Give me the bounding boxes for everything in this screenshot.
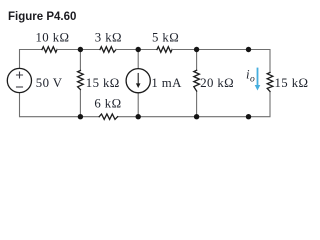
wire branch current source: [137, 50, 139, 117]
current source I1 circle: [126, 69, 150, 93]
resistor R 20k vertical zigzag: [194, 70, 200, 91]
svg-text:50 V: 50 V: [36, 76, 63, 90]
node dot top 20k: [194, 47, 199, 52]
wire top: left corner to 10k: [20, 50, 43, 69]
svg-text:1 mA: 1 mA: [151, 76, 182, 90]
voltage source V1 circle: [7, 68, 31, 92]
wire top: 3k to 5k: [116, 49, 157, 51]
svg-text:6 kΩ: 6 kΩ: [94, 96, 121, 110]
current source arrow: [137, 74, 139, 86]
node dot bottom 20k: [194, 114, 199, 119]
voltage source plus sign: [17, 72, 23, 78]
svg-text:20 kΩ: 20 kΩ: [200, 76, 234, 90]
resistor R 15k vertical zigzag: [78, 71, 84, 90]
wire bottom rail: [20, 92, 271, 117]
wire branch 20k: [196, 50, 198, 117]
resistor R 15k right vertical zigzag: [267, 73, 273, 92]
node dot bottom 15k: [78, 114, 83, 119]
resistor R 10k zigzag: [42, 47, 57, 53]
svg-text:10 kΩ: 10 kΩ: [36, 31, 70, 45]
figure title: [8, 11, 76, 23]
svg-text:io: io: [246, 68, 255, 85]
node dot bottom current source: [136, 114, 141, 119]
voltage source minus sign: [17, 86, 23, 88]
node dot top 15k: [78, 47, 83, 52]
current io arrow: [257, 69, 259, 87]
node dot bottom right: [246, 114, 251, 119]
svg-text:3 kΩ: 3 kΩ: [95, 31, 122, 45]
resistor R 3k zigzag: [100, 47, 116, 53]
node dot top right: [246, 47, 251, 52]
wire top: 5k to top-right corner and down: [172, 50, 270, 73]
wire top: 10k to 3k: [57, 49, 100, 51]
wire branch 15k: [79, 50, 81, 117]
svg-text:15 kΩ: 15 kΩ: [275, 76, 309, 90]
svg-text:5 kΩ: 5 kΩ: [152, 31, 179, 45]
resistor R 6k zigzag: [99, 114, 117, 119]
svg-text:15 kΩ: 15 kΩ: [86, 76, 120, 90]
resistor R 5k zigzag: [157, 47, 172, 53]
node dot top current source: [136, 47, 141, 52]
